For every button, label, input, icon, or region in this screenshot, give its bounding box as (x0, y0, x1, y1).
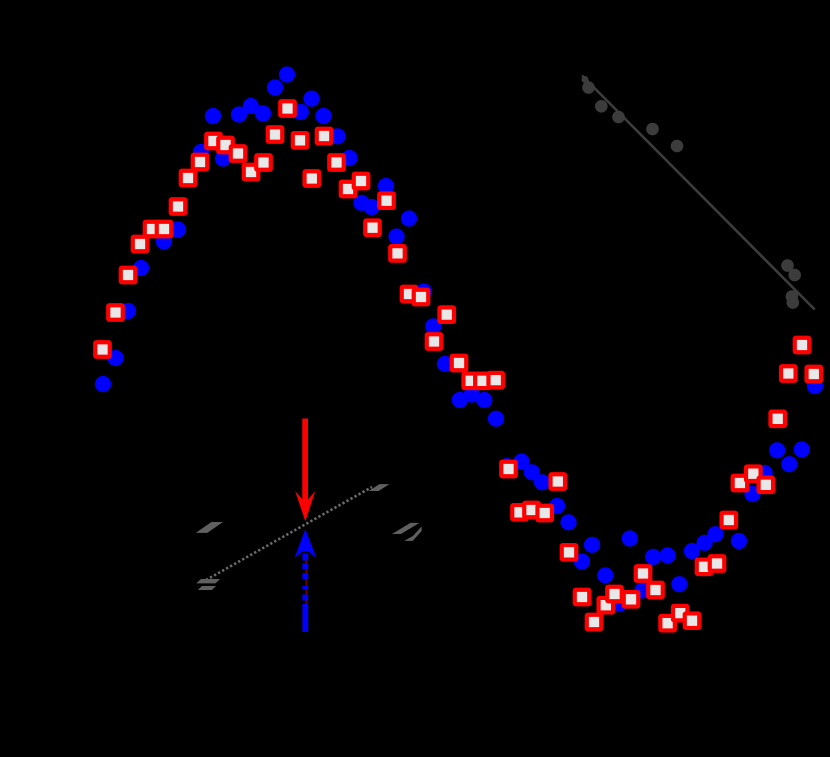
red square point 38 (551, 474, 566, 489)
blue circle point 45 (660, 547, 676, 563)
blue circle point 18 (315, 108, 331, 124)
blue circle point 53 (769, 442, 785, 458)
blue dashed arrow stem (302, 554, 308, 561)
red square point 7 (171, 199, 186, 214)
red square point 53 (733, 476, 748, 491)
red square point 46 (648, 583, 663, 598)
red square point 5 (145, 222, 160, 237)
blue circle point 9 (205, 108, 221, 124)
gray data point 6 (671, 140, 684, 153)
blue circle point 5 (156, 233, 172, 249)
red square point 59 (807, 367, 822, 382)
blue circle point 12 (243, 98, 259, 114)
blue circle point 20 (341, 150, 357, 166)
red square point 40 (575, 590, 590, 605)
red square point 20 (329, 155, 344, 170)
blue circle point 27 (425, 318, 441, 334)
red square point 56 (770, 412, 785, 427)
red square point 55 (759, 478, 774, 493)
gray data point 7 (781, 259, 794, 272)
red square point 13 (244, 165, 259, 180)
gray data point 5 (646, 123, 659, 136)
blue circle point 28 (437, 356, 453, 372)
red square point 35 (512, 505, 527, 520)
blue up arrow head (295, 529, 317, 558)
blue circle point 35 (534, 474, 550, 490)
blue circle point 6 (170, 221, 186, 237)
blue circle point 4 (133, 260, 149, 276)
blue circle point 44 (645, 549, 661, 565)
blue circle point 51 (744, 486, 760, 502)
red square point 21 (341, 182, 356, 197)
blue circle point 28b (hidden) (499, 458, 515, 474)
red square point 29 (439, 307, 454, 322)
red square point 52 (722, 513, 737, 528)
blue circle point 32 (488, 411, 504, 427)
blue circle point 42 (622, 530, 638, 546)
red square point 8 (181, 171, 196, 186)
thin dark red line behind blue dashes (305, 556, 307, 604)
blue circle point 26 (416, 283, 432, 299)
blue circle point 40 (597, 567, 613, 583)
blue circle point 43 (634, 582, 650, 598)
red square point 37 (537, 506, 552, 521)
red square point 17 (293, 133, 308, 148)
red square point 10 (206, 134, 221, 149)
gray data point 3 (595, 100, 608, 113)
red square point 42 (599, 598, 614, 613)
blue circle point 2 (107, 350, 123, 366)
blue circle point 52 (757, 465, 773, 481)
red square point 22 (354, 174, 369, 189)
break slash upper-right (369, 484, 390, 491)
red square point 57 (781, 366, 796, 381)
blue circle point 1 (95, 376, 111, 392)
blue circle point 34 (524, 464, 540, 480)
blue circle point 47 (684, 543, 700, 559)
red square point 43 (607, 587, 622, 602)
red square point 36 (524, 503, 539, 518)
red square point 18 (305, 171, 320, 186)
red square point 6 (157, 222, 172, 237)
blue circle point 49 (707, 526, 723, 542)
red square point 50 (697, 560, 712, 575)
gray data point 1 (582, 76, 589, 83)
red square point 1 (95, 342, 110, 357)
blue circle point 17 (303, 91, 319, 107)
break slash lower-left B (198, 586, 216, 590)
break slash lower-left A (196, 579, 220, 583)
blue circle point 39 (584, 537, 600, 553)
red square point 58 (795, 338, 810, 353)
red square point 30 (452, 356, 467, 371)
red square point 4 (133, 237, 148, 252)
blue circle point 30 (464, 386, 480, 402)
red square point 49 (685, 613, 700, 628)
red square point 19 (317, 129, 332, 144)
red square point 48 (673, 606, 688, 621)
break slash right B (404, 526, 421, 541)
red square point 51 (710, 556, 725, 571)
blue circle point 54 (781, 456, 797, 472)
red square point 33 (488, 373, 503, 388)
break slash left (196, 522, 223, 533)
red square point 16 (280, 101, 295, 116)
blue circle point 7 (193, 144, 209, 160)
gray data point 4 (612, 111, 625, 124)
gray data point 9 (786, 290, 799, 303)
red square point 32 (475, 374, 490, 389)
fit line (dark gray, upper right) (582, 76, 815, 310)
blue circle point 46 (671, 576, 687, 592)
red square point 31 (463, 374, 478, 389)
blue circle point 56 (807, 378, 823, 394)
blue circle point 11 (231, 106, 247, 122)
blue circle point 41 (612, 595, 628, 611)
blue circle point 16 (293, 104, 309, 120)
blue circle point 37 (560, 514, 576, 530)
red square point 11 (218, 138, 233, 153)
blue circle point 15 (279, 66, 295, 82)
blue circle point 23 (378, 178, 394, 194)
red square point 9 (193, 155, 208, 170)
red square point 3 (121, 268, 136, 283)
red square point 14 (256, 155, 271, 170)
red square point 45 (636, 566, 651, 581)
blue circle point 36 (549, 498, 565, 514)
blue circle point 48 (697, 535, 713, 551)
blue circle point 31 (476, 392, 492, 408)
red square point 28 (427, 334, 442, 349)
blue circle point 14 (267, 79, 283, 95)
break slash right A (392, 523, 419, 534)
blue circle point 22 (364, 199, 380, 215)
red square point 26 (402, 287, 417, 302)
blue circle point 10 (215, 150, 231, 166)
blue circle point 25 (401, 210, 417, 226)
red square point 27 (414, 290, 429, 305)
dotted gray guide line (206, 487, 372, 580)
red square point 2 (108, 305, 123, 320)
red square point 25 (390, 246, 405, 261)
blue circle point 19 (329, 128, 345, 144)
red square point 44 (624, 592, 639, 607)
blue circle point 24 (388, 228, 404, 244)
red square point 39 (562, 545, 577, 560)
blue circle point 55 (794, 441, 810, 457)
blue circle point 13 (255, 105, 271, 121)
red square point 24 (379, 193, 394, 208)
red square point 41 (587, 615, 602, 630)
blue circle point 3 (120, 303, 136, 319)
blue circle point 50 (731, 533, 747, 549)
gray data point 2 (582, 81, 595, 94)
red square point 54 (746, 466, 761, 481)
red square point 34 (501, 462, 516, 477)
red square point 15 (268, 127, 283, 142)
gray data point 8 (788, 269, 801, 282)
blue circle point 21 (353, 195, 369, 211)
red square point 23 (365, 220, 380, 235)
blue circle point 33 (513, 453, 529, 469)
red square point 47 (660, 616, 675, 631)
blue circle point 29 (452, 392, 468, 408)
red down arrow (302, 419, 308, 507)
gray data point 10 (787, 296, 800, 309)
red square point 12 (231, 146, 246, 161)
blue circle point 38 (574, 553, 590, 569)
